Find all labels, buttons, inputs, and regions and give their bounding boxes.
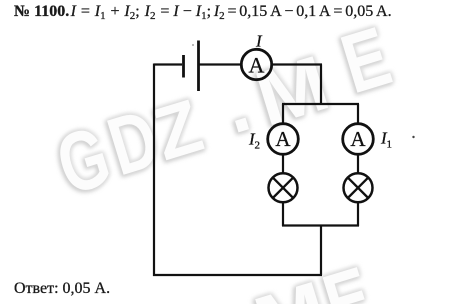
svg-text:I: I bbox=[255, 32, 263, 51]
svg-text:1: 1 bbox=[387, 139, 393, 151]
svg-text:2: 2 bbox=[255, 140, 261, 152]
svg-text:A: A bbox=[275, 127, 291, 151]
svg-text:A: A bbox=[249, 52, 265, 77]
svg-text:A: A bbox=[350, 127, 366, 151]
